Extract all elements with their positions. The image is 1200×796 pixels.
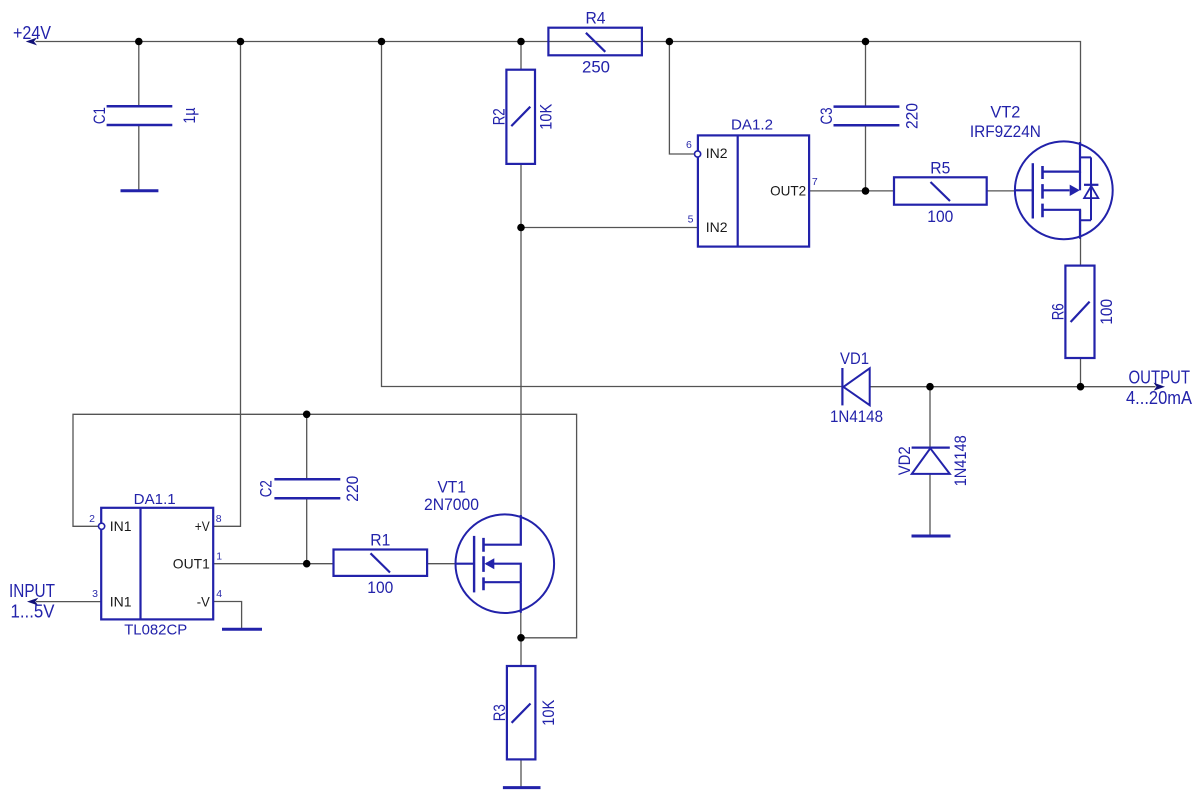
svg-text:OUTPUT: OUTPUT [1129,367,1191,387]
svg-text:100: 100 [1097,299,1116,325]
svg-text:1: 1 [216,550,222,562]
svg-text:8: 8 [216,513,222,525]
svg-text:R3: R3 [490,704,509,721]
svg-text:OUT2: OUT2 [770,182,806,198]
svg-text:4...20mA: 4...20mA [1126,388,1192,408]
svg-text:C3: C3 [817,108,836,125]
svg-text:R2: R2 [490,108,509,125]
svg-text:+24V: +24V [13,23,51,43]
svg-text:INPUT: INPUT [9,581,55,601]
svg-text:100: 100 [927,207,953,226]
svg-text:DA1.2: DA1.2 [731,116,773,133]
svg-text:3: 3 [92,588,98,600]
svg-text:1µ: 1µ [180,107,199,123]
svg-text:2: 2 [89,513,95,525]
svg-text:VD2: VD2 [895,446,914,475]
svg-text:VT1: VT1 [437,477,466,496]
svg-text:2N7000: 2N7000 [424,495,479,514]
svg-text:IN1: IN1 [110,518,132,534]
svg-text:6: 6 [686,139,692,151]
svg-text:7: 7 [812,176,818,188]
svg-text:1N4148: 1N4148 [830,407,883,426]
svg-text:IN2: IN2 [706,219,728,235]
svg-text:TL082CP: TL082CP [124,622,187,639]
svg-text:R4: R4 [586,9,606,28]
svg-text:R5: R5 [930,158,950,177]
svg-text:R1: R1 [370,531,390,550]
svg-text:C2: C2 [257,480,276,497]
svg-text:1N4148: 1N4148 [951,435,970,486]
svg-text:10K: 10K [539,699,558,726]
svg-text:+V: +V [195,518,211,534]
svg-text:VT2: VT2 [990,102,1020,121]
svg-text:1...5V: 1...5V [11,602,55,622]
svg-text:OUT1: OUT1 [173,556,210,572]
svg-text:220: 220 [343,476,362,502]
svg-text:220: 220 [903,103,922,129]
svg-text:-V: -V [197,593,211,609]
svg-text:IN1: IN1 [110,593,132,609]
svg-text:C1: C1 [90,107,109,124]
svg-text:R6: R6 [1049,303,1068,320]
svg-text:IRF9Z24N: IRF9Z24N [970,122,1041,141]
svg-text:IN2: IN2 [706,145,728,161]
svg-text:5: 5 [688,213,694,225]
svg-text:100: 100 [367,578,393,597]
svg-text:250: 250 [582,57,610,76]
svg-text:VD1: VD1 [840,349,869,368]
svg-text:10K: 10K [537,103,556,130]
svg-text:4: 4 [216,588,222,600]
svg-text:DA1.1: DA1.1 [134,491,176,508]
